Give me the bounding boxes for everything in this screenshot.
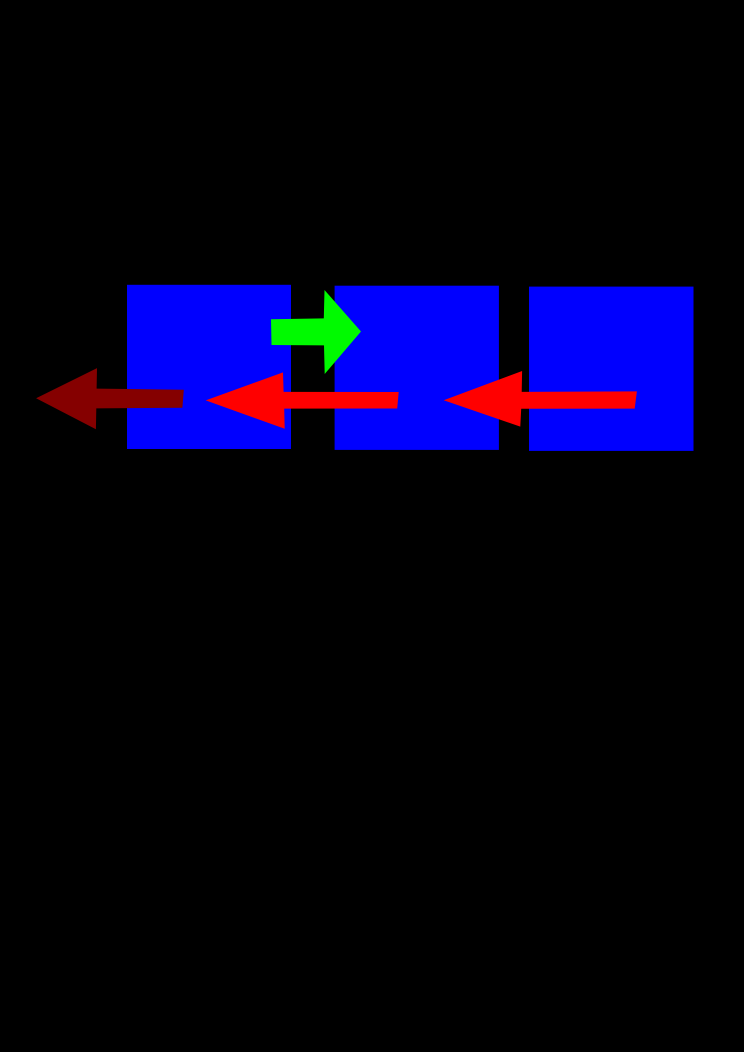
blue block 1 (left) — [127, 285, 291, 449]
dark red arrow pointing left (far left) — [36, 368, 184, 429]
blue block 3 (right) — [529, 287, 694, 451]
red arrow pointing left (right) — [444, 371, 637, 427]
green arrow pointing right — [271, 290, 361, 374]
red arrow pointing left (middle) — [206, 372, 399, 428]
blue block 2 (middle) — [335, 286, 499, 450]
